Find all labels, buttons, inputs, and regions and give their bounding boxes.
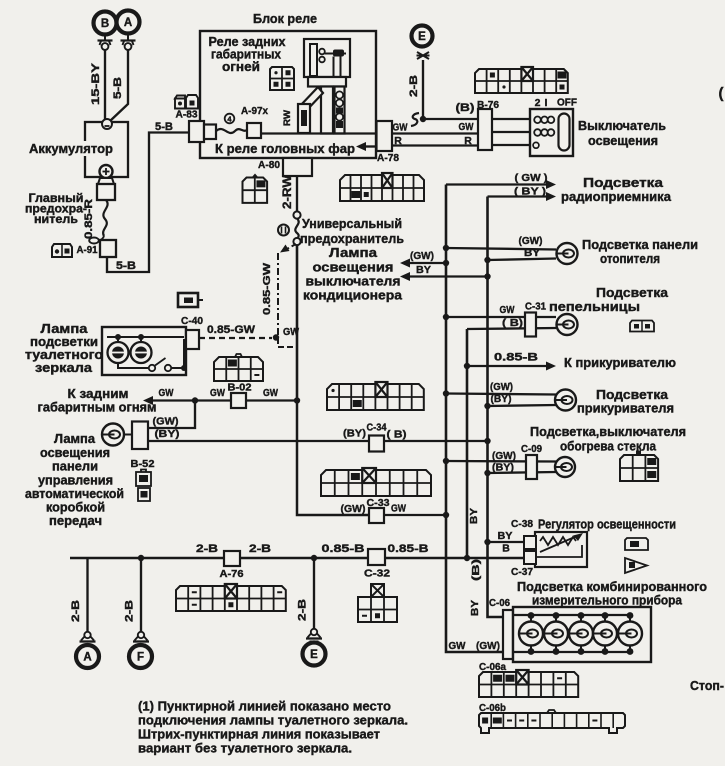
dash-dot wire 0.85-GW	[277, 253, 279, 337]
junction C-33 GW bus	[443, 512, 449, 518]
svg-text:C-09: C-09	[521, 444, 542, 455]
connector A-76	[224, 551, 240, 566]
svg-text:(GW): (GW)	[410, 250, 434, 262]
junction GW lighter	[443, 390, 449, 396]
svg-text:B-02: B-02	[228, 382, 252, 394]
wire C-33 GW right	[384, 514, 446, 516]
svg-text:A-83: A-83	[176, 110, 198, 121]
relay lower-left pin mark	[301, 110, 307, 126]
wire GW to radio	[446, 183, 547, 185]
svg-text:C-32: C-32	[364, 568, 390, 580]
wire 0.85-B to lighter socket	[467, 365, 547, 367]
connector icon B-52	[141, 470, 146, 473]
svg-text:BY: BY	[498, 530, 513, 542]
pin grid mid left	[327, 384, 424, 410]
cluster junction bottom 1	[528, 648, 535, 655]
cluster lamp 2 stub top	[555, 615, 557, 622]
svg-text:A-97x: A-97x	[241, 105, 268, 117]
cluster junction top 1	[528, 612, 535, 619]
wire BY bus (right vertical)	[488, 197, 504, 618]
svg-text:GW: GW	[391, 503, 406, 515]
wire BY to heater lamp	[488, 259, 557, 261]
svg-text:5-B: 5-B	[112, 77, 124, 99]
cluster junction bottom 5	[627, 648, 634, 655]
rheostat box	[535, 532, 587, 567]
svg-text:панели: панели	[52, 460, 98, 474]
svg-text:(1) Пунктирной линией показано: (1) Пунктирной линией показано место	[138, 699, 391, 714]
svg-text:( BY ): ( BY )	[514, 186, 546, 198]
node F bottom (terminal circle)	[129, 645, 152, 668]
wire bar to switch 3	[492, 144, 533, 146]
svg-text:(BY): (BY)	[492, 463, 514, 474]
svg-text:BY: BY	[524, 247, 540, 259]
wire BY to radio	[488, 195, 548, 197]
main fuse holder bell	[98, 178, 114, 184]
vanity wire to connector	[171, 367, 183, 369]
wire GW to C-31	[446, 316, 556, 318]
svg-text:Лампа: Лампа	[54, 432, 96, 446]
wavy wire 0.85-R	[103, 200, 108, 236]
svg-text:измерительного прибора: измерительного прибора	[532, 594, 683, 608]
cluster junction top 4	[602, 612, 609, 619]
junction GW rear	[192, 397, 198, 403]
svg-text:2-B: 2-B	[249, 543, 271, 555]
relay diagonal strut	[299, 87, 323, 112]
relay left leg pin	[321, 87, 333, 134]
relay contact circle 2	[319, 57, 325, 63]
connector C-33	[369, 508, 384, 523]
cluster junction top 2	[553, 612, 560, 619]
connector icon ashtray	[630, 321, 654, 332]
svg-text:Подсветка комбинированного: Подсветка комбинированного	[517, 580, 707, 594]
connector A-80	[283, 158, 312, 176]
cluster lamp 4 stub bottom	[604, 645, 606, 652]
svg-text:A: A	[124, 17, 132, 29]
svg-text:E: E	[310, 649, 318, 661]
connector A-91	[100, 240, 116, 257]
svg-text:Подсветка: Подсветка	[583, 176, 664, 190]
svg-text:Подсветка: Подсветка	[596, 388, 669, 402]
connector C-40	[186, 330, 199, 349]
junction BY heater	[484, 257, 490, 263]
relay right leg dark band 2	[336, 121, 343, 128]
connector A-97x left box	[189, 121, 204, 142]
cluster lamp 4 stub top	[604, 615, 606, 622]
lighting switch box	[530, 109, 573, 156]
vanity internal rail	[107, 336, 184, 338]
relay lower-left pin	[298, 104, 310, 133]
rheostat wiper arrow	[540, 536, 577, 552]
junction C-34 BY bus	[484, 438, 490, 444]
svg-text:E: E	[418, 31, 426, 43]
svg-text:вариант без туалетного зеркала: вариант без туалетного зеркала.	[138, 741, 352, 756]
cluster lamp 3 stub bottom	[580, 645, 582, 652]
svg-text:( B): ( B)	[502, 317, 523, 329]
pin grid A-76	[176, 586, 286, 611]
node A (terminal circle)	[117, 11, 140, 34]
cluster junction bottom 2	[553, 648, 560, 655]
svg-text:R: R	[394, 135, 402, 147]
wire bar to switch 2	[492, 131, 533, 133]
cluster lamp 1	[519, 622, 543, 646]
connector icon A-83	[175, 95, 198, 109]
pin grid B-02	[214, 357, 263, 381]
wire GW to C-09	[446, 460, 556, 463]
svg-text:автоматической: автоматической	[25, 487, 124, 501]
svg-text:(GW): (GW)	[519, 235, 543, 247]
svg-text:пепельницы: пепельницы	[549, 300, 640, 314]
cluster junction top 5	[627, 612, 634, 619]
wire (B) to lighting switch	[423, 118, 478, 120]
svg-text:B: B	[101, 18, 109, 30]
connector ATX lamp	[132, 422, 148, 450]
wire C-34 to BY bus	[384, 440, 488, 442]
connector symbol above F	[138, 632, 144, 638]
relay right leg detail circle 1	[336, 91, 343, 98]
wire GW bus center	[296, 245, 299, 401]
svg-text:коробкой: коробкой	[46, 501, 105, 515]
wire through relay box	[261, 132, 377, 134]
svg-text:B-52: B-52	[131, 458, 155, 470]
switch contact row 2	[534, 129, 541, 136]
svg-text:2-B: 2-B	[408, 75, 420, 97]
cluster junction bottom 3	[578, 648, 585, 655]
svg-text:0.85-B: 0.85-B	[322, 543, 365, 555]
svg-text:2-RW: 2-RW	[282, 175, 294, 209]
node E top (terminal circle)	[412, 26, 433, 47]
lamp ATX panel	[102, 424, 124, 446]
svg-text:R: R	[464, 135, 472, 147]
cluster lamp 5 stub top	[629, 615, 631, 622]
svg-text:F: F	[137, 652, 144, 664]
battery minus terminal	[102, 119, 112, 129]
svg-text:отопителя: отопителя	[600, 252, 660, 266]
svg-text:(GW): (GW)	[476, 640, 500, 652]
vanity lamp 2 stub	[140, 337, 142, 343]
svg-text:прикуривателя: прикуривателя	[577, 402, 674, 416]
svg-text:0.85-B: 0.85-B	[388, 543, 429, 555]
junction BY C-38	[484, 539, 490, 545]
pin grid top center	[340, 175, 424, 201]
relay block box	[200, 31, 376, 158]
svg-text:C-06: C-06	[489, 598, 510, 609]
svg-text:управления: управления	[38, 474, 113, 488]
svg-text:GW: GW	[449, 640, 466, 652]
relay right leg dark band 1	[336, 108, 343, 114]
wire BY to C-38	[488, 541, 525, 543]
svg-text:предохранитель: предохранитель	[300, 232, 404, 246]
svg-text:I: I	[545, 97, 548, 109]
junction GW center bus	[294, 397, 300, 403]
wire 2-B bottom	[70, 557, 524, 560]
junction B bus to 0.85-B wire	[464, 555, 470, 561]
cluster lamp 3	[569, 622, 593, 646]
svg-text:освещения: освещения	[588, 134, 658, 148]
svg-text:К реле головных фар: К реле головных фар	[215, 142, 355, 156]
dashed wire C-40	[199, 337, 272, 339]
rheostat internal wire	[536, 545, 582, 557]
wire C-33 GW	[297, 401, 369, 516]
junction GW heater	[443, 245, 449, 251]
svg-text:(B): (B)	[456, 102, 475, 114]
connector C-34	[369, 436, 384, 452]
wire GW to heater lamp	[446, 248, 556, 250]
cluster bottom rail	[513, 651, 630, 653]
relay coil core bar	[310, 44, 317, 76]
svg-text:5-B: 5-B	[155, 121, 173, 133]
node E bottom (terminal circle)	[303, 643, 326, 666]
junction 0.85-B branch	[464, 363, 470, 369]
relay contact arm	[325, 53, 347, 55]
svg-text:GW: GW	[159, 387, 174, 399]
wire drop to F	[140, 558, 142, 632]
wire A-91 to 5-B riser	[107, 133, 189, 273]
svg-text:BY: BY	[469, 600, 481, 616]
svg-text:кондиционера: кондиционера	[303, 289, 403, 303]
connector A-78	[377, 121, 393, 151]
svg-text:BY: BY	[468, 508, 480, 524]
switch contact row 1	[534, 117, 541, 124]
cluster lamp 5	[618, 622, 642, 646]
svg-text:2-B: 2-B	[196, 543, 218, 555]
junction BY C-09	[484, 470, 490, 476]
svg-text:подсветки: подсветки	[30, 335, 98, 349]
cluster junction top 3	[578, 612, 585, 619]
lamp cigarette lighter	[555, 390, 576, 411]
wire GW from A-78	[392, 132, 478, 134]
svg-text:Штрих-пунктирная линия показыв: Штрих-пунктирная линия показывает	[138, 727, 380, 742]
svg-text:0.85-GW: 0.85-GW	[207, 324, 256, 336]
cluster lamp 2 stub bottom	[555, 645, 557, 652]
lamp ashtray	[557, 314, 578, 335]
vanity mirror lamp box	[102, 327, 186, 375]
junction at E drop	[420, 116, 426, 122]
pin grid C-06a	[479, 672, 578, 697]
pin grid in relay box	[270, 67, 294, 90]
cluster lamp 1 stub bottom	[530, 645, 532, 652]
lamp defogger switch	[555, 457, 575, 477]
svg-text:A: A	[83, 652, 91, 664]
svg-text:C-37: C-37	[511, 567, 533, 578]
rheostat resistor zigzag	[540, 537, 576, 545]
svg-text:(BY): (BY)	[491, 394, 512, 405]
vanity lamp 1	[108, 342, 129, 363]
relay internal lead 1	[333, 57, 335, 78]
svg-text:2-B: 2-B	[70, 600, 82, 622]
svg-text:2: 2	[535, 97, 541, 109]
svg-text:2-B: 2-B	[124, 600, 136, 622]
vanity junction 2	[138, 334, 144, 340]
wire (BY) from ATX lamp (C-34 wire)	[148, 440, 369, 442]
relay right leg detail circle 2	[336, 99, 343, 106]
svg-text:(GW): (GW)	[492, 451, 516, 462]
svg-text:A-76: A-76	[220, 568, 244, 580]
svg-text:(B): (B)	[470, 559, 482, 581]
wire break hook	[411, 113, 419, 126]
wavy harness wire	[216, 129, 247, 133]
svg-text:(BY): (BY)	[343, 428, 366, 440]
svg-text:(GW): (GW)	[341, 503, 366, 515]
wire 2-RW down from A-80	[296, 176, 298, 213]
junction BY AC arrow	[484, 273, 490, 279]
svg-text:(: (	[719, 85, 724, 102]
label Аккумулятор	[28, 141, 113, 156]
svg-text:RW: RW	[282, 109, 292, 126]
svg-text:GW: GW	[393, 122, 408, 134]
wire 15-BY from B to battery	[104, 50, 106, 122]
vanity lamp 2	[131, 342, 152, 363]
svg-text:GW: GW	[210, 387, 225, 399]
svg-text:C-33: C-33	[367, 497, 390, 509]
svg-text:GW: GW	[459, 121, 474, 133]
connector icon near A-91	[52, 244, 72, 257]
vanity junction 1	[115, 334, 121, 340]
wire BY to lighter lamp	[488, 405, 557, 406]
svg-text:Выключатель: Выключатель	[578, 119, 666, 133]
wire B bus (middle vertical)	[466, 329, 469, 558]
connector C-06	[503, 610, 513, 659]
cluster top rail	[513, 614, 630, 616]
svg-text:Подсветка панели: Подсветка панели	[582, 238, 698, 252]
wire BY to AC switch lamp	[409, 275, 488, 277]
svg-text:GW: GW	[263, 387, 278, 399]
pin grid C-32	[358, 597, 397, 622]
svg-text:Стоп-: Стоп-	[690, 679, 724, 693]
svg-text:2-B: 2-B	[297, 599, 309, 621]
vanity lamp 1 stub	[117, 337, 119, 343]
connector symbol under B	[104, 35, 106, 41]
connector A-97x left box small	[204, 125, 216, 140]
wire GW to lighter lamp	[446, 394, 556, 395]
svg-text:( B): ( B)	[387, 429, 407, 441]
svg-text:огней: огней	[222, 60, 260, 74]
relay contact circle 1	[319, 49, 325, 55]
connector C-09	[526, 455, 537, 479]
relay U1 top box	[304, 39, 350, 77]
cluster lamp 2	[544, 622, 568, 646]
junction dashed	[273, 334, 279, 340]
svg-text:C-38: C-38	[511, 519, 533, 530]
wire drop to E	[313, 558, 315, 629]
svg-text:A-91: A-91	[77, 245, 98, 256]
lamp heater panel	[557, 243, 578, 264]
svg-text:A-78: A-78	[377, 152, 399, 164]
svg-text:B: B	[502, 543, 510, 555]
vanity bottom wire	[118, 363, 148, 368]
svg-text:15-BY: 15-BY	[90, 62, 102, 105]
instrument cluster box	[513, 607, 651, 662]
svg-text:(GW): (GW)	[490, 382, 513, 393]
svg-text:подключения лампы туалетного з: подключения лампы туалетного зеркала.	[138, 713, 408, 728]
battery plus terminal	[100, 165, 113, 178]
connector symbol above A	[84, 632, 90, 638]
fuse terminal circle bottom	[293, 238, 300, 245]
cluster lamp 5 stub bottom	[629, 645, 631, 652]
connector symbol under A	[127, 35, 129, 41]
wire drop to A	[86, 558, 88, 632]
svg-text:Подсветка,выключателя: Подсветка,выключателя	[530, 425, 686, 439]
pin grid B-76	[475, 69, 568, 93]
svg-text:0.85-B: 0.85-B	[494, 352, 538, 364]
svg-text:туалетного: туалетного	[25, 348, 103, 362]
svg-text:Регулятор освещенности: Регулятор освещенности	[538, 518, 676, 532]
connector icon BY rheostat	[625, 538, 648, 550]
pin grid center	[321, 470, 431, 496]
connector C-31	[525, 313, 536, 337]
wire arrow to headlight relay	[362, 145, 376, 147]
pin strip C-06b	[479, 713, 625, 733]
switch slider oval	[559, 114, 570, 151]
dashed branch arrow	[286, 244, 296, 250]
dash-dot hook to bus	[278, 338, 293, 347]
svg-text:A-80: A-80	[258, 159, 280, 171]
svg-text:OFF: OFF	[557, 97, 578, 109]
svg-text:GW: GW	[283, 326, 299, 338]
svg-text:освещения: освещения	[40, 446, 110, 460]
svg-text:Подсветка: Подсветка	[596, 286, 669, 300]
svg-text:К задним: К задним	[68, 387, 129, 401]
node A bottom (terminal circle)	[76, 645, 99, 668]
cluster lamp 1 stub top	[530, 615, 532, 622]
relay coil winding	[333, 50, 344, 57]
vanity switch lever	[155, 358, 166, 366]
svg-text:BY: BY	[416, 264, 431, 276]
svg-text:Универсальный: Универсальный	[302, 217, 402, 231]
pin grid icon below A-80	[243, 178, 268, 203]
svg-text:Лампа: Лампа	[329, 246, 378, 260]
wire B to C-31	[467, 328, 556, 329]
svg-text:Лампа: Лампа	[41, 322, 89, 336]
svg-text:GW: GW	[500, 304, 515, 316]
main fuse box	[97, 184, 115, 200]
cluster junction bottom 4	[602, 648, 609, 655]
vanity switch contact 1	[149, 365, 155, 371]
connector C-38	[524, 536, 536, 549]
svg-text:0.85-GW: 0.85-GW	[261, 263, 273, 315]
switch contact 3	[533, 142, 539, 148]
svg-text:C-31: C-31	[525, 302, 546, 313]
svg-text:5-B: 5-B	[116, 260, 136, 272]
junction GW ashtray	[443, 314, 449, 320]
pin grid icon C-09	[620, 455, 658, 481]
relay right leg detail circle 3	[336, 113, 343, 120]
svg-text:C-34: C-34	[367, 422, 387, 434]
svg-text:Аккумулятор: Аккумулятор	[29, 141, 113, 156]
junction GW C-09	[443, 458, 449, 464]
connector C-32	[368, 549, 385, 565]
wire GW to rear lights	[152, 399, 297, 401]
svg-text:C-40: C-40	[181, 315, 203, 327]
relay internal lead 2	[340, 57, 342, 78]
svg-text:освещения: освещения	[313, 261, 394, 275]
junction F drop	[138, 555, 144, 561]
svg-text:К прикуривателю: К прикуривателю	[564, 356, 676, 370]
svg-text:Блок реле: Блок реле	[253, 11, 317, 26]
footnote circle 1	[278, 225, 289, 236]
junction GW AC arrow	[443, 260, 449, 266]
wire (GW) from ATX lamp	[148, 401, 195, 428]
connector A-97x right box	[247, 123, 261, 138]
svg-text:выключателя: выключателя	[306, 275, 401, 289]
vanity switch contact 2	[165, 365, 171, 371]
connector icon C-40	[178, 293, 198, 307]
pin grid C-32 X cell	[371, 584, 384, 597]
svg-text:зеркала: зеркала	[35, 361, 93, 375]
svg-text:нитель: нитель	[34, 214, 78, 226]
connector bar before switch	[478, 109, 492, 150]
connector symbol under E	[417, 52, 429, 59]
footnote circle 4	[225, 114, 235, 124]
